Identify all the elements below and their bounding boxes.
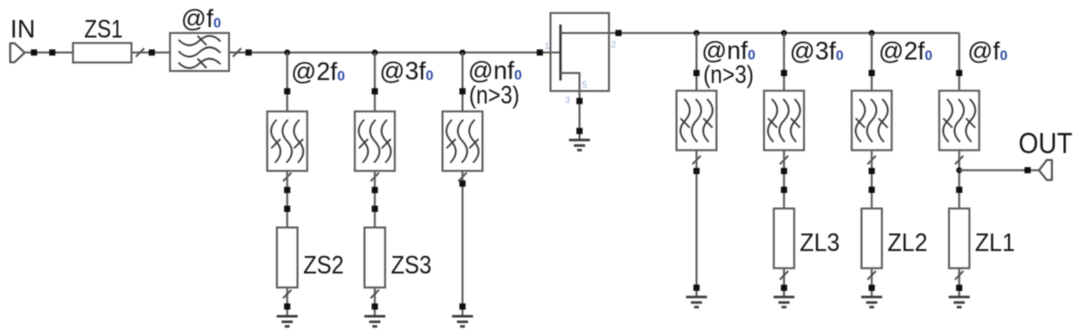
- svg-text:ZS1: ZS1: [84, 16, 123, 44]
- tick resistor ZL2 pin2: [868, 271, 876, 280]
- band-pass filter 2f0 left: [267, 111, 307, 170]
- wire ZS1 to filter F0in: [132, 52, 171, 54]
- tick resistor ZL1 pin2: [955, 271, 963, 280]
- ground right branch f0: [949, 297, 970, 307]
- pin marker ground ZS3: [372, 303, 378, 309]
- pin marker resistor ZL2 pin1: [869, 187, 875, 193]
- transistor Q1 source lead: [561, 73, 580, 91]
- port IN: [10, 43, 25, 62]
- junction node right branch 2f0: [869, 30, 875, 36]
- ground right branch 2f0: [861, 297, 882, 307]
- wire down to filter 2f0 right: [871, 33, 873, 91]
- svg-text:3: 3: [565, 95, 570, 105]
- wire down to filter 2f0 left: [286, 53, 288, 112]
- wire filter F0in to transistor gate: [229, 52, 561, 54]
- svg-text:OUT: OUT: [1019, 128, 1073, 160]
- wire resistor ZS2 to ground: [286, 288, 288, 317]
- band-pass filter nf0 right: [677, 91, 717, 151]
- tick ZS1 pin2: [136, 48, 144, 57]
- pin marker resistor ZL1 pin1: [956, 187, 962, 193]
- pin marker filter 2f0 right pin1: [869, 70, 875, 76]
- tick filter 3f0 right pin2: [780, 156, 788, 165]
- pin marker filter F0in pin1: [149, 49, 155, 55]
- resistor ZS2: [277, 228, 298, 288]
- pin marker transistor drain: [615, 30, 621, 36]
- tick filter 2f0 left pin2: [283, 173, 291, 182]
- pin marker below filter 3f0 left: [372, 187, 378, 193]
- pin marker port IN: [31, 49, 37, 55]
- pin marker ground nf0 right: [693, 285, 699, 291]
- pin marker filter 3f0 left pin1: [372, 88, 378, 94]
- resistor ZS1: [73, 43, 132, 63]
- junction node left branch 2f0: [284, 50, 290, 56]
- band-pass filter 3f0 right: [764, 91, 804, 151]
- pin marker filter nf0 left pin1: [459, 88, 465, 94]
- pin marker below filter nf0 left: [459, 180, 465, 186]
- ground left branch nf0: [452, 316, 473, 326]
- wire down to filter nf0 right: [696, 33, 698, 91]
- transistor Q1 body: [551, 13, 610, 91]
- pin marker filter 3f0 right pin1: [781, 70, 787, 76]
- wire resistor ZL1 to ground: [958, 268, 960, 297]
- svg-text:5: 5: [582, 80, 587, 90]
- pin marker source: [576, 98, 582, 104]
- wire resistor ZL2 to ground: [871, 268, 873, 297]
- svg-text:1: 1: [544, 41, 549, 51]
- wire filter to resistor ZS2: [286, 171, 288, 228]
- wire filter to resistor ZL1: [958, 150, 960, 208]
- svg-text:@f0: @f0: [968, 37, 1008, 65]
- junction node right branch 3f0: [781, 30, 787, 36]
- pin marker port OUT: [1025, 167, 1031, 173]
- band-pass filter 2f0 right: [852, 91, 892, 151]
- tick filter f0 right pin2: [955, 156, 963, 165]
- pin marker filter 2f0 left pin1: [284, 88, 290, 94]
- ground right branch 3f0: [774, 297, 795, 307]
- svg-text:@2f0: @2f0: [879, 37, 933, 65]
- pin marker below filter 3f0 right: [781, 168, 787, 174]
- band-pass filter F0in: [170, 33, 229, 71]
- wire resistor ZL3 to ground: [783, 268, 785, 297]
- wire filter to resistor ZL2: [871, 150, 873, 208]
- tick filter 3f0 left pin2: [371, 173, 379, 182]
- svg-text:ZS2: ZS2: [303, 252, 344, 280]
- pin marker resistor ZL3 pin1: [781, 187, 787, 193]
- pin marker resistor ZS2 pin1: [284, 206, 290, 212]
- resistor ZL2: [862, 209, 882, 269]
- tick filter F0in pin2: [233, 48, 241, 57]
- pin marker ground ZL1: [956, 285, 962, 291]
- ground left branch 3f0: [364, 316, 385, 326]
- svg-text:@f0: @f0: [181, 5, 221, 33]
- junction node OUT tap: [956, 167, 962, 173]
- junction node left branch 3f0: [372, 50, 378, 56]
- wire source to ground: [579, 91, 581, 140]
- pin marker ZS1 pin1: [49, 49, 55, 55]
- svg-text:ZL2: ZL2: [888, 229, 928, 257]
- band-pass filter f0 right: [939, 91, 979, 151]
- wire IN to ZS1: [25, 52, 74, 54]
- pin marker transistor gate: [537, 49, 543, 55]
- ground left branch 2f0: [277, 316, 298, 326]
- pin marker filter f0 right pin1: [956, 70, 962, 76]
- junction node left branch nf0: [460, 50, 466, 56]
- wire resistor ZS3 to ground: [374, 288, 376, 317]
- svg-text:@2f0: @2f0: [291, 58, 345, 86]
- wire filter to resistor ZL3: [783, 150, 785, 208]
- tick resistor ZS2 pin2: [283, 290, 291, 299]
- svg-text:ZL1: ZL1: [975, 229, 1015, 257]
- transistor Q1 channel bar: [559, 25, 561, 81]
- band-pass filter nf0 left: [443, 111, 483, 170]
- pin marker below filter 2f0 left: [284, 187, 290, 193]
- wire to port OUT: [959, 169, 1040, 171]
- junction node right branch nf0: [694, 30, 700, 36]
- pin marker source ground: [576, 128, 582, 134]
- svg-text:@3f0: @3f0: [790, 37, 844, 65]
- tick filter nf0 left pin2: [458, 173, 466, 182]
- svg-text:(n>3): (n>3): [469, 82, 520, 110]
- wire down to filter 3f0 right: [783, 33, 785, 91]
- wire filter to resistor ZS3: [374, 171, 376, 228]
- wire down to filter nf0 left: [462, 53, 464, 112]
- port OUT: [1039, 160, 1052, 180]
- resistor ZL3: [774, 209, 794, 269]
- pin marker below filter nf0 right: [693, 168, 699, 174]
- band-pass filter 3f0 left: [355, 111, 395, 170]
- wire down to filter f0 right: [958, 33, 960, 91]
- resistor ZS3: [365, 228, 386, 288]
- ground right branch nf0: [686, 297, 707, 307]
- tick filter nf0 right pin2: [692, 156, 700, 165]
- svg-text:ZS3: ZS3: [391, 252, 432, 280]
- wire drain bus: [561, 32, 960, 34]
- tick filter 2f0 right pin2: [868, 156, 876, 165]
- wire filter nf0 left to ground: [462, 171, 464, 316]
- svg-text:2: 2: [611, 40, 616, 50]
- pin marker resistor ZS3 pin1: [372, 206, 378, 212]
- ground transistor source: [569, 140, 590, 150]
- pin marker ground ZS2: [284, 303, 290, 309]
- pin marker ground nf0 left: [459, 303, 465, 309]
- tick resistor ZS3 pin2: [371, 290, 379, 299]
- tick resistor ZL3 pin2: [780, 271, 788, 280]
- pin marker ground ZL2: [869, 285, 875, 291]
- wire filter nf0 right to ground: [696, 150, 698, 297]
- wire down to filter 3f0 left: [374, 53, 376, 112]
- pin marker on gate wire: [246, 49, 252, 55]
- resistor ZL1: [949, 209, 969, 269]
- svg-text:ZL3: ZL3: [800, 229, 840, 257]
- pin marker below filter 2f0 right: [869, 168, 875, 174]
- svg-text:IN: IN: [10, 15, 35, 43]
- pin marker filter nf0 right pin1: [693, 70, 699, 76]
- pin marker ground ZL3: [781, 285, 787, 291]
- svg-text:@3f0: @3f0: [380, 57, 434, 85]
- svg-text:(n>3): (n>3): [703, 61, 754, 89]
